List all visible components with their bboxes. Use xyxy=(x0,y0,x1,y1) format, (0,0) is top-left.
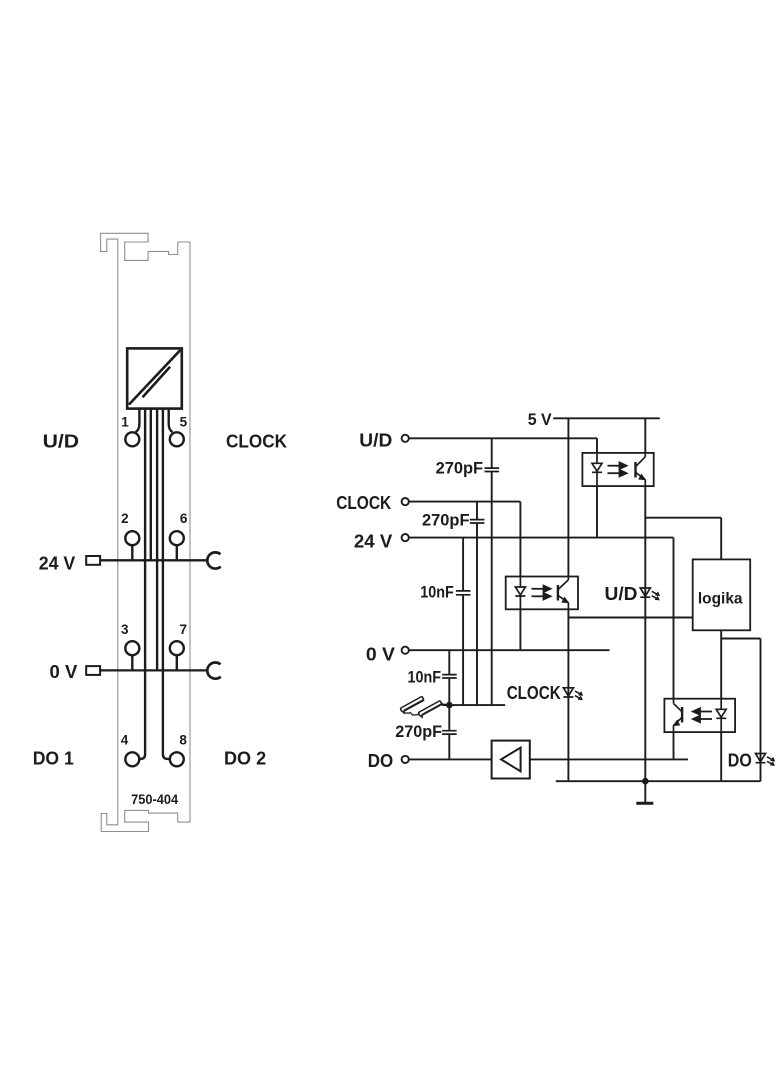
terminal 5 xyxy=(170,432,184,446)
svg-text:CLOCK: CLOCK xyxy=(226,431,287,451)
svg-text:24 V: 24 V xyxy=(39,553,76,573)
0V bus line xyxy=(100,669,207,671)
svg-text:DO 2: DO 2 xyxy=(224,749,266,769)
svg-text:270pF: 270pF xyxy=(436,459,484,477)
svg-text:DO 1: DO 1 xyxy=(33,749,74,769)
wire opto U2 emitter to logika xyxy=(568,617,692,619)
optocoupler U3 transistor xyxy=(674,699,683,732)
wire pin1 from square to terminal 1 xyxy=(136,409,140,433)
junction dot ground xyxy=(642,778,649,785)
wire opto U3 emitter xyxy=(673,732,675,759)
wire bus line pin2 xyxy=(139,409,145,759)
wire opto U1 emitter to logika top xyxy=(645,518,721,560)
capacitor C4 10nF plates xyxy=(442,675,457,678)
svg-text:2: 2 xyxy=(121,511,129,526)
terminal 7 stub xyxy=(176,655,178,670)
24V male contact tab xyxy=(86,556,100,565)
optocoupler U2 arrows xyxy=(532,586,551,600)
wire pin5 from square to terminal 5 xyxy=(169,409,173,433)
wire 5V to opto U1 collector xyxy=(644,418,646,453)
LED indicator U/D xyxy=(640,588,659,600)
terminal 0V xyxy=(402,647,409,654)
LED indicator CLOCK xyxy=(563,688,582,700)
terminal DO xyxy=(402,756,409,763)
terminal CLOCK xyxy=(402,498,409,505)
optocoupler U1 LED xyxy=(592,453,602,486)
svg-text:5: 5 xyxy=(180,414,188,429)
24V female contact xyxy=(207,552,220,568)
terminal 8 xyxy=(170,752,184,766)
svg-text:CLOCK: CLOCK xyxy=(336,493,391,513)
optocoupler U3 arrows xyxy=(693,708,712,722)
svg-text:U/D: U/D xyxy=(605,584,638,604)
wire cap C3 vertical xyxy=(462,538,464,706)
optocoupler U2 LED xyxy=(515,577,525,610)
svg-text:24 V: 24 V xyxy=(354,532,392,552)
terminal 6 xyxy=(170,531,184,545)
wire cap C1 vertical xyxy=(491,438,493,705)
wire ground stub xyxy=(644,781,646,802)
svg-text:10nF: 10nF xyxy=(408,668,442,686)
svg-text:U/D: U/D xyxy=(43,431,80,451)
terminal 24V xyxy=(402,534,409,541)
0V male contact tab xyxy=(86,666,100,675)
svg-text:7: 7 xyxy=(180,622,188,637)
svg-text:CLOCK: CLOCK xyxy=(507,683,561,703)
optocoupler U3 LED xyxy=(716,699,726,732)
svg-text:3: 3 xyxy=(121,622,129,637)
wire cap C2 vertical xyxy=(476,502,478,705)
terminal 2 xyxy=(125,531,139,545)
svg-text:6: 6 xyxy=(180,511,188,526)
wire U/D horizontal xyxy=(409,437,597,439)
terminal 4 xyxy=(125,752,139,766)
optocoupler U1 box xyxy=(582,453,653,486)
buffer U5 triangle xyxy=(501,748,520,772)
wire logika to DO LED xyxy=(721,639,760,782)
svg-text:8: 8 xyxy=(179,733,187,748)
wire ground rail xyxy=(556,780,761,782)
optocoupler U3 box xyxy=(664,699,735,732)
capacitor C1 270pF plates xyxy=(442,468,499,734)
wire logika bottom xyxy=(720,630,722,781)
module outline 750-404 xyxy=(101,233,190,831)
svg-text:5 V: 5 V xyxy=(528,410,553,429)
wire 24V horizontal and down xyxy=(409,538,674,699)
capacitor C3 10nF plates xyxy=(456,591,471,595)
buffer U5 box xyxy=(492,741,530,779)
svg-text:270pF: 270pF xyxy=(395,723,442,741)
wire DO horizontal xyxy=(409,758,492,760)
wire opto U1 emitter down through U/D LED to ground xyxy=(644,486,646,781)
wire 5V rail xyxy=(553,417,660,419)
optocoupler U1 transistor xyxy=(636,453,646,486)
svg-text:0 V: 0 V xyxy=(366,645,395,665)
junction dot shield xyxy=(446,702,453,709)
terminal 6 stub xyxy=(176,545,178,560)
wire CLOCK horizontal xyxy=(409,502,521,651)
capacitor C2 270pF plates xyxy=(470,520,485,523)
ground symbol bar xyxy=(636,802,653,805)
wire bus line pin5b to terminal 8 xyxy=(163,409,170,759)
wire opto U2 emitter down through CLOCK LED to ground xyxy=(567,609,569,781)
24V bus line xyxy=(100,559,207,561)
wire 5V to opto U2 collector xyxy=(567,418,569,576)
power jumper contact square xyxy=(127,348,182,408)
svg-text:DO: DO xyxy=(728,751,752,771)
wire shield bus xyxy=(442,704,505,706)
svg-text:270pF: 270pF xyxy=(422,512,470,530)
wire buffer output xyxy=(530,758,688,760)
terminal 3 xyxy=(125,641,139,655)
capacitor C5 270pF plates xyxy=(442,731,457,734)
wire bus line pin4 ends at 0V xyxy=(156,409,158,671)
optocoupler U2 transistor xyxy=(558,577,569,610)
0V female contact xyxy=(207,662,220,678)
svg-text:750-404: 750-404 xyxy=(131,791,178,807)
svg-text:DO: DO xyxy=(368,751,393,771)
svg-text:logika: logika xyxy=(698,590,743,607)
terminal 1 xyxy=(125,432,139,446)
wire 0V to shield and DO xyxy=(448,650,450,759)
svg-text:10nF: 10nF xyxy=(420,583,454,601)
terminal U/D xyxy=(402,435,409,442)
terminal 7 xyxy=(170,641,184,655)
wire U/D LED pin into opto U1 xyxy=(596,438,598,537)
optocoupler U1 arrows xyxy=(608,463,627,477)
LED indicator DO xyxy=(756,754,775,766)
svg-text:U/D: U/D xyxy=(359,430,392,450)
wire 0V horizontal xyxy=(409,649,610,651)
logika block U4 xyxy=(693,559,751,630)
shield DIN rail symbol xyxy=(401,696,449,717)
terminal 2 stub xyxy=(131,545,133,560)
wire bus line pin3 ends at 24V xyxy=(150,409,152,561)
svg-text:0 V: 0 V xyxy=(50,662,78,682)
optocoupler U2 box xyxy=(506,577,578,610)
terminal 3 stub xyxy=(131,655,133,670)
svg-text:1: 1 xyxy=(121,414,129,429)
svg-text:4: 4 xyxy=(121,733,129,748)
